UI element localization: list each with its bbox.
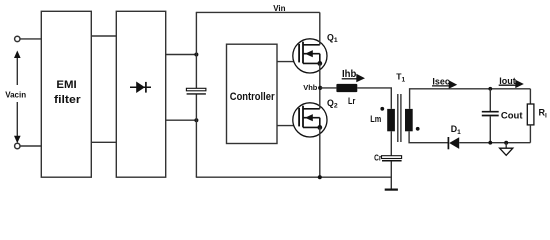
EMI filter block [41, 11, 91, 177]
svg-text:Isec: Isec [432, 77, 450, 87]
svg-text:Vacin: Vacin [5, 91, 26, 100]
wire Cr to ground [390, 161, 392, 189]
svg-text:Iout: Iout [499, 76, 516, 86]
Q1 source lead wire [319, 63, 321, 88]
svg-text:Vin: Vin [273, 4, 285, 13]
bottom rail wire [196, 176, 391, 178]
wire D1 to output [459, 142, 530, 144]
Q2 source lead wire [319, 127, 321, 177]
bus vertical wire lower [195, 95, 197, 178]
rectifier block [116, 11, 165, 177]
wire EMI to rectifier bottom [91, 141, 116, 143]
bulk capacitor [186, 88, 206, 94]
bus vertical wire upper [195, 12, 197, 88]
wire Vhb to Lr [320, 87, 336, 89]
node dot Cout bottom [488, 141, 492, 145]
wire EMI to rectifier top [91, 35, 116, 37]
Vin top rail wire [196, 11, 320, 13]
wire gate Q1 [277, 61, 299, 63]
wire secondary bottom [409, 131, 448, 142]
svg-text:Cr: Cr [374, 154, 382, 163]
Q2 drain lead wire [319, 88, 321, 109]
primary polarity dot [380, 107, 384, 111]
transformer T1 primary winding (Lm) [387, 109, 395, 131]
input terminal bottom [15, 143, 20, 148]
Isec current arrow [432, 77, 457, 89]
Ihb current arrow [342, 69, 365, 82]
svg-text:filter: filter [54, 94, 81, 106]
wire rectifier to bus top [166, 54, 197, 56]
resistor Rl [527, 89, 534, 143]
node Vhb dot [318, 86, 322, 90]
node dot Q2 source [318, 175, 322, 179]
capacitor Cr [382, 156, 402, 161]
controller block [227, 44, 278, 143]
transformer core [398, 94, 401, 142]
ground symbol output [500, 143, 513, 156]
capacitor Cout [482, 89, 499, 143]
wire rectifier to bus bottom [166, 119, 197, 121]
ground bar [385, 189, 398, 191]
Vacin source arrow [3, 51, 30, 144]
transistor Q2 [293, 103, 327, 137]
svg-text:Lr: Lr [348, 96, 356, 106]
wire gate Q2 [277, 125, 299, 127]
transformer T1 secondary winding [405, 109, 413, 131]
Iout current arrow [499, 76, 524, 88]
wire [20, 38, 41, 40]
svg-text:Controller: Controller [230, 91, 275, 103]
wire primary bottom to Cr [390, 131, 392, 155]
ground node dot [504, 141, 508, 145]
svg-text:EMI: EMI [56, 79, 76, 91]
Q1 drain lead wire [319, 12, 321, 44]
wire Lr to transformer [357, 88, 391, 109]
svg-text:Vhb: Vhb [303, 83, 318, 92]
wire [20, 145, 41, 147]
rectifier diode symbol [130, 82, 151, 94]
transistor Q1 [293, 39, 327, 73]
diode D1 [448, 137, 459, 149]
wire secondary top [410, 89, 531, 109]
svg-text:Lm: Lm [370, 114, 381, 125]
inductor Lr [336, 84, 357, 92]
node dot [194, 53, 198, 57]
svg-text:Cout: Cout [501, 110, 523, 121]
node dot [194, 118, 198, 122]
secondary polarity dot [416, 127, 420, 131]
input terminal top [15, 36, 20, 41]
node dot Cout top [488, 87, 492, 91]
